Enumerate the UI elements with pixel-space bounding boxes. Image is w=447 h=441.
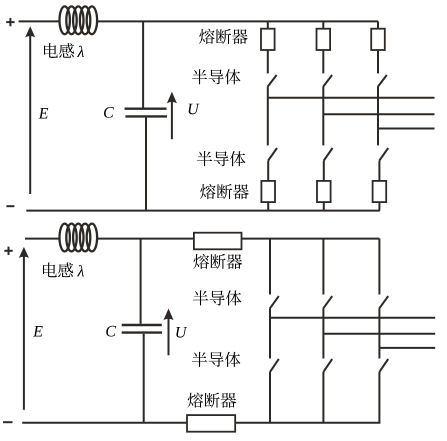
label E (circuit 1) <box>39 108 49 118</box>
wire: positive rail fuse to leg 3 (circuit 2) <box>242 238 380 240</box>
semiconductor switch VT26 lower blade (circuit 2) <box>379 359 388 372</box>
label U (circuit 1) <box>189 104 200 115</box>
wire: leg 1 upper hinge to lower contact (circuit 1) <box>267 87 269 145</box>
wire: leg 1 upper hinge to lower contact (circuit 2) <box>269 309 271 359</box>
label 半导体 upper switches (circuit 2) <box>193 290 241 305</box>
capacitor C top plate (circuit 2) <box>122 324 162 326</box>
wire: AC output phase b (circuit 1) <box>323 113 434 115</box>
arrow E source voltage (circuit 1) <box>25 26 35 194</box>
inductor 电感λ (circuit 1) <box>59 6 97 34</box>
wire: capacitor bottom branch (circuit 1) <box>145 118 147 211</box>
fuse FU14 lower (circuit 1) <box>261 181 275 202</box>
label 电感λ (circuit 1) <box>44 43 84 58</box>
wire: leg 3 lower fuse stub to negative rail (circuit 1) <box>378 202 380 211</box>
wire: leg 1 stub from positive rail (circuit 1) <box>267 21 269 28</box>
wire: leg 2 from positive rail to upper contact (circuit 2) <box>322 239 324 295</box>
label 半导体 lower switches (circuit 2) <box>192 352 240 367</box>
wire: leg 2 stub from positive rail (circuit 1) <box>322 21 324 28</box>
semiconductor switch VT16 lower blade (circuit 1) <box>379 148 388 161</box>
arrow E source voltage (circuit 2) <box>19 247 29 410</box>
wire: positive rail inductor to fuse (circuit 2) <box>97 238 194 240</box>
wire: AC output phase a (circuit 2) <box>270 317 435 319</box>
wire: negative DC rail (circuit 1) <box>26 210 380 212</box>
wire: leg 1 from positive rail to upper contact (circuit 2) <box>269 239 271 295</box>
wire: leg 2 lower hinge to negative rail (circuit 2) <box>322 372 324 423</box>
semiconductor switch VT24 lower blade (circuit 2) <box>270 359 279 372</box>
inductor 电感λ (circuit 2) <box>59 224 97 252</box>
wire: positive DC rail left segment (circuit 2) <box>25 238 60 240</box>
label 半导体 upper switches (circuit 1) <box>192 69 240 84</box>
wire: negative rail left segment (circuit 2) <box>22 422 187 424</box>
fuse FU13 upper (circuit 1) <box>371 29 385 50</box>
terminal − (circuit 1) <box>6 205 14 207</box>
label 熔断器 positive-rail fuse (circuit 2) <box>193 254 242 269</box>
wire: AC output phase c (circuit 1) <box>378 128 435 130</box>
terminal + (circuit 2) <box>4 247 12 255</box>
wire: leg 3 stub from positive rail (circuit 1) <box>377 21 379 28</box>
fuse FU21 positive rail (circuit 2) <box>194 233 242 250</box>
capacitor C bottom plate (circuit 2) <box>122 331 162 333</box>
wire: leg 3 lower hinge to negative rail (circuit 2) <box>378 372 380 423</box>
fuse FU15 lower (circuit 1) <box>317 181 331 202</box>
wire: leg 3 upper hinge to lower contact (circuit 1) <box>377 87 379 145</box>
wire: leg 3 from positive rail to upper contact (circuit 2) <box>378 239 380 295</box>
arrow U DC link voltage (circuit 2) <box>164 309 174 356</box>
terminal + (circuit 1) <box>6 18 14 26</box>
semiconductor switch VT14 lower blade (circuit 1) <box>268 148 277 161</box>
wire: leg 2 upper hinge to lower contact (circuit 1) <box>322 87 324 145</box>
semiconductor switch VT13 upper blade (circuit 1) <box>378 75 387 87</box>
semiconductor switch VT23 upper blade (circuit 2) <box>379 296 388 309</box>
semiconductor switch VT22 upper blade (circuit 2) <box>323 296 332 309</box>
capacitor C top plate (circuit 1) <box>125 107 167 109</box>
wire: AC output phase b (circuit 2) <box>323 333 435 335</box>
wire: capacitor bottom branch (circuit 2) <box>143 334 145 423</box>
fuse FU22 negative rail (circuit 2) <box>187 415 235 432</box>
semiconductor switch VT21 upper blade (circuit 2) <box>270 296 279 309</box>
wire: leg 3 fuse to upper switch (circuit 1) <box>377 50 379 73</box>
wire: AC output phase a (circuit 1) <box>268 97 435 99</box>
wire: leg 3 upper hinge to lower contact (circuit 2) <box>378 309 380 359</box>
terminal − (circuit 2) <box>3 421 13 423</box>
label 熔断器 lower fuses (circuit 1) <box>200 184 249 199</box>
wire: positive DC rail left segment (circuit 1) <box>19 20 60 22</box>
label 熔断器 negative-rail fuse (circuit 2) <box>187 392 236 407</box>
wire: capacitor top branch (circuit 1) <box>142 21 144 107</box>
label C (circuit 2) <box>106 326 116 337</box>
label 熔断器 upper fuses (circuit 1) <box>199 29 248 44</box>
wire: leg 1 fuse to upper switch (circuit 1) <box>267 50 269 73</box>
label U (circuit 2) <box>176 327 187 338</box>
capacitor C bottom plate (circuit 1) <box>125 115 167 117</box>
wire: negative rail fuse to leg 3 (circuit 2) <box>235 422 380 424</box>
wire: AC output phase c (circuit 2) <box>379 347 435 349</box>
label C (circuit 1) <box>104 107 114 118</box>
label 半导体 lower switches (circuit 1) <box>197 151 245 166</box>
wire: leg 3 lower hinge to lower fuse (circuit 1) <box>378 161 380 181</box>
semiconductor switch VT25 lower blade (circuit 2) <box>323 359 332 372</box>
label 电感λ (circuit 2) <box>43 263 84 278</box>
wire: leg 2 lower fuse stub to negative rail (circuit 1) <box>323 202 325 211</box>
wire: leg 2 lower hinge to lower fuse (circuit 1) <box>323 161 325 181</box>
fuse FU12 upper (circuit 1) <box>317 29 331 50</box>
semiconductor switch VT11 upper blade (circuit 1) <box>268 75 277 87</box>
semiconductor switch VT15 lower blade (circuit 1) <box>324 148 333 161</box>
wire: leg 1 lower hinge to negative rail (circuit 2) <box>269 372 271 423</box>
wire: leg 1 lower hinge to lower fuse (circuit 1) <box>267 161 269 181</box>
wire: positive DC rail from inductor to leg 3 (circuit 1) <box>97 20 378 22</box>
wire: leg 2 fuse to upper switch (circuit 1) <box>322 50 324 73</box>
wire: capacitor top branch (circuit 2) <box>140 239 142 324</box>
arrow U DC link voltage (circuit 1) <box>167 92 177 140</box>
fuse FU11 upper (circuit 1) <box>261 29 275 50</box>
wire: leg 1 lower fuse stub to negative rail (circuit 1) <box>267 202 269 211</box>
label E (circuit 2) <box>33 326 43 336</box>
fuse FU16 lower (circuit 1) <box>373 181 387 202</box>
semiconductor switch VT12 upper blade (circuit 1) <box>323 75 332 87</box>
wire: leg 2 upper hinge to lower contact (circuit 2) <box>322 309 324 359</box>
